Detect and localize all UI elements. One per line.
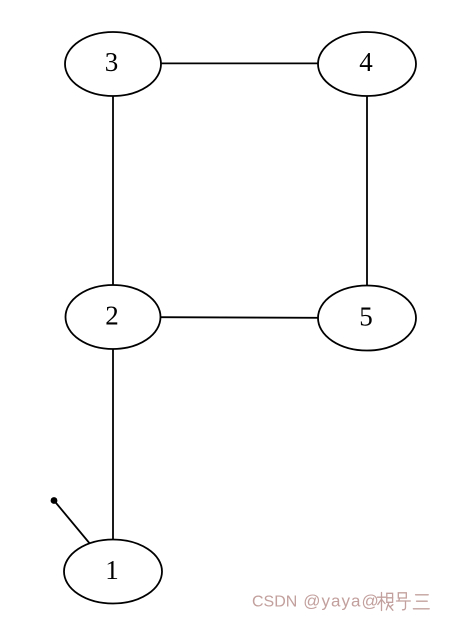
svg-text:3: 3	[105, 47, 119, 77]
wire edge 4-5	[366, 63, 368, 318]
svg-text:4: 4	[359, 47, 373, 77]
watermark glyph gen	[378, 593, 430, 611]
node 1	[64, 540, 162, 604]
wire edge 3-2	[112, 63, 114, 317]
wire edge 2-1	[112, 317, 114, 572]
svg-text:CSDN: CSDN	[252, 594, 297, 611]
node dot	[51, 497, 58, 504]
wire edge dot-1	[54, 501, 113, 572]
node 5	[318, 286, 416, 351]
wire edge 3-4	[113, 62, 367, 64]
svg-text:5: 5	[359, 302, 373, 332]
node 4	[318, 32, 416, 96]
号	[398, 593, 406, 598]
三	[416, 594, 429, 596]
node 2	[66, 285, 161, 349]
svg-text:@yaya@: @yaya@	[303, 592, 379, 611]
node 3	[65, 32, 161, 96]
svg-text:2: 2	[105, 301, 119, 331]
svg-text:1: 1	[105, 555, 119, 585]
根	[381, 593, 383, 611]
wire edge 2-5	[113, 317, 367, 318]
watermark CSDN @yaya@	[252, 592, 380, 611]
